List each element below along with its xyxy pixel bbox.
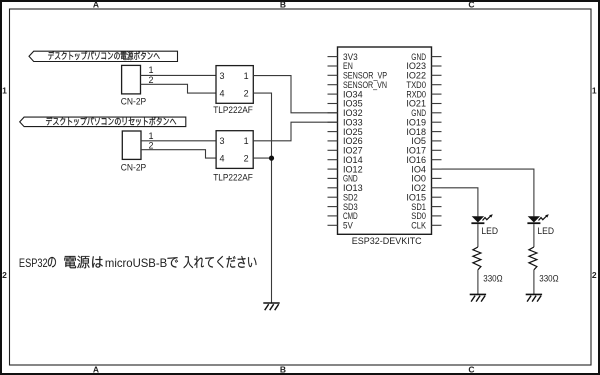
pin IO34 (left 5) — [328, 93, 338, 95]
wire CN-2P.1 to U1.3 — [141, 74, 217, 76]
pin EN (left 2) — [328, 65, 338, 67]
optocoupler U1 TLP222AF — [216, 66, 253, 104]
wire CN-2P2.1 to U2.3 — [141, 140, 216, 142]
pin IO33 (left 8) — [328, 121, 338, 123]
pin SD0 (right 18) — [432, 215, 442, 217]
pin SD1 (right 17) — [432, 206, 442, 208]
ground symbol D2 — [526, 293, 542, 295]
wire ESP32 to LED D2 — [442, 169, 534, 216]
svg-text:CN-2P: CN-2P — [121, 163, 146, 174]
pin IO18 (right 9) — [432, 131, 442, 133]
svg-text:4: 4 — [220, 154, 225, 164]
svg-text:C: C — [468, 364, 474, 374]
pin IO22 (right 3) — [432, 74, 442, 76]
junction dot — [269, 156, 274, 161]
LED D1 — [472, 216, 484, 222]
svg-text:A: A — [93, 0, 99, 10]
svg-text:2: 2 — [2, 270, 7, 280]
pin IO26 (left 10) — [328, 140, 338, 142]
pin IO27 (left 11) — [328, 149, 338, 151]
pin CMD (left 18) — [328, 215, 338, 217]
svg-text:LED: LED — [537, 226, 554, 237]
wire CN-2P.2 to U1.4 — [141, 84, 217, 93]
svg-text:1: 1 — [149, 65, 154, 75]
svg-text:2: 2 — [244, 154, 249, 164]
net flag: to desktop PC reset button — [20, 117, 186, 127]
pin IO21 (right 6) — [432, 103, 442, 105]
resistor 330ohm D1 — [473, 247, 481, 270]
svg-text:LED: LED — [481, 226, 498, 237]
svg-text:CLK: CLK — [411, 221, 426, 231]
pin IO23 (right 2) — [432, 65, 442, 67]
svg-text:microUSB-B: microUSB-B — [105, 256, 167, 270]
wire U2.1 to ESP32 IO33 — [253, 122, 337, 141]
svg-text:ESP32-DEVKITC: ESP32-DEVKITC — [352, 236, 422, 247]
wire ESP32 to LED D1 — [442, 188, 478, 217]
pin IO17 (right 11) — [432, 149, 442, 151]
pin IO4 (right 13) — [432, 168, 442, 170]
svg-text:2: 2 — [149, 75, 154, 85]
connector CN-2P (reset) — [122, 131, 141, 159]
wire LED to resistor D1 — [477, 224, 479, 247]
svg-text:C: C — [468, 0, 474, 10]
pin IO32 (left 7) — [328, 112, 338, 114]
svg-text:1: 1 — [244, 136, 249, 146]
svg-text:2: 2 — [244, 88, 249, 98]
pin GND (right 7) — [432, 112, 442, 114]
connector CN-2P (power) — [122, 65, 141, 94]
net flag: to desktop PC power button — [29, 51, 178, 61]
optocoupler U2 TLP222AF — [216, 131, 253, 169]
wire resistor to ground D1 — [477, 270, 479, 295]
svg-text:A: A — [93, 364, 99, 374]
svg-text:1: 1 — [149, 131, 154, 141]
wire U1.1 to ESP32 IO32 — [253, 76, 337, 113]
wire U1.2 down to ground — [253, 93, 271, 303]
pin CLK (right 19) — [432, 224, 442, 226]
pin SENSOR_VN (left 4) — [328, 84, 338, 86]
ground symbol (opto) — [263, 302, 279, 304]
pin RXD0 (right 5) — [432, 93, 442, 95]
resistor 330ohm D2 — [529, 247, 537, 270]
svg-text:B: B — [280, 0, 286, 10]
pin 3V3 (left 1) — [328, 56, 338, 58]
svg-text:2: 2 — [592, 270, 597, 280]
pin IO19 (right 8) — [432, 121, 442, 123]
pin IO2 (right 15) — [432, 187, 442, 189]
wire LED to resistor D2 — [533, 224, 535, 247]
pin IO25 (left 9) — [328, 131, 338, 133]
pin IO12 (left 13) — [328, 168, 338, 170]
wire resistor to ground D2 — [533, 270, 535, 295]
svg-text:2: 2 — [149, 141, 154, 151]
svg-text:ESP32: ESP32 — [19, 256, 48, 270]
ground symbol D1 — [470, 293, 486, 295]
IC ESP32-DEVKITC — [338, 47, 432, 234]
pin GND (right 1) — [432, 56, 442, 58]
pin TXD0 (right 4) — [432, 84, 442, 86]
svg-text:3: 3 — [220, 71, 225, 81]
svg-text:TLP222AF: TLP222AF — [213, 172, 253, 183]
svg-text:330Ω: 330Ω — [483, 274, 502, 285]
pin IO0 (right 14) — [432, 177, 442, 179]
svg-text:330Ω: 330Ω — [539, 274, 558, 285]
pin SD3 (left 17) — [328, 206, 338, 208]
svg-text:1: 1 — [592, 85, 597, 95]
pin IO15 (right 16) — [432, 196, 442, 198]
LED D2 — [528, 216, 540, 222]
svg-text:3: 3 — [220, 136, 225, 146]
pin SD2 (left 16) — [328, 196, 338, 198]
pin IO14 (left 12) — [328, 159, 338, 161]
pin IO16 (right 12) — [432, 159, 442, 161]
svg-text:4: 4 — [220, 88, 225, 98]
wire CN-2P2.2 to U2.4 — [141, 150, 216, 158]
pin 5V (left 19) — [328, 224, 338, 226]
svg-text:5V: 5V — [343, 221, 354, 231]
pin IO5 (right 10) — [432, 140, 442, 142]
svg-text:CN-2P: CN-2P — [121, 97, 146, 108]
svg-text:1: 1 — [244, 71, 249, 81]
pin IO35 (left 6) — [328, 103, 338, 105]
pin GND (left 14) — [328, 177, 338, 179]
svg-text:TLP222AF: TLP222AF — [213, 105, 253, 116]
wire U2.2 to ground net — [253, 157, 271, 159]
svg-text:1: 1 — [2, 85, 7, 95]
pin SENSOR_VP (left 3) — [328, 74, 338, 76]
svg-text:B: B — [280, 364, 286, 374]
pin IO13 (left 15) — [328, 187, 338, 189]
